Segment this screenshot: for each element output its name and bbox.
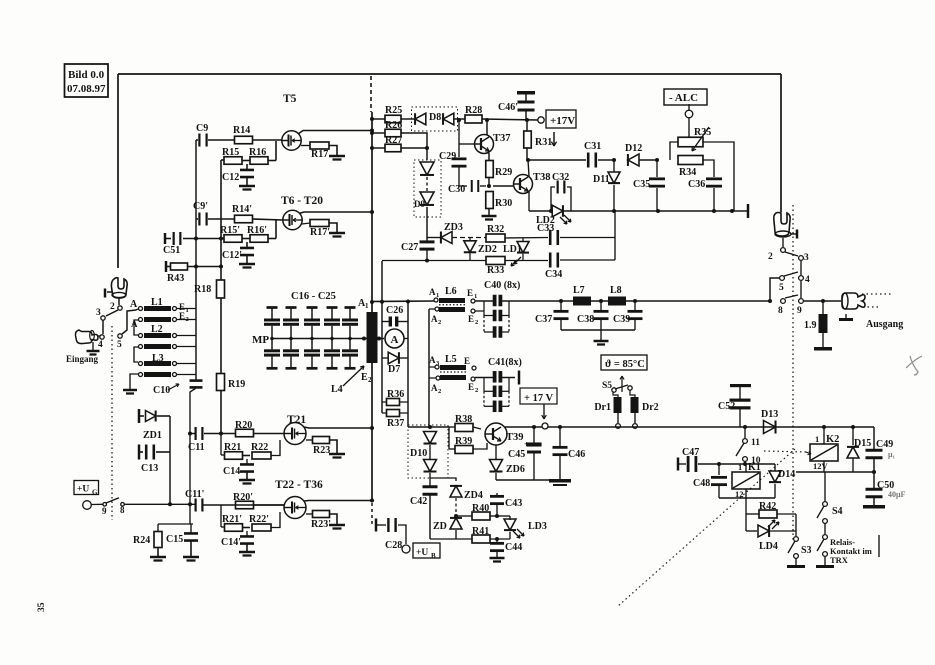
- svg-text:R17': R17': [310, 227, 330, 238]
- svg-text:R21': R21': [222, 514, 242, 525]
- svg-text:L7: L7: [573, 285, 585, 296]
- svg-text:+U: +U: [416, 548, 428, 558]
- svg-text:R19: R19: [228, 379, 245, 390]
- svg-text:C41(8x): C41(8x): [488, 357, 522, 368]
- svg-text:1.9: 1.9: [804, 320, 817, 331]
- svg-text:LD4: LD4: [759, 541, 778, 552]
- svg-text:2: 2: [438, 319, 441, 326]
- svg-text:K1: K1: [748, 462, 761, 473]
- svg-text:C49: C49: [876, 439, 893, 450]
- svg-text:D13: D13: [761, 409, 778, 420]
- svg-text:D10: D10: [410, 448, 427, 459]
- svg-text:4: 4: [98, 340, 103, 350]
- svg-text:A: A: [431, 314, 438, 324]
- svg-text:LD1: LD1: [503, 244, 522, 255]
- svg-text:R20: R20: [235, 420, 252, 431]
- svg-text:R16': R16': [247, 225, 267, 236]
- svg-text:12V: 12V: [813, 461, 829, 471]
- svg-text:A: A: [130, 299, 138, 310]
- svg-text:A: A: [429, 287, 436, 297]
- svg-text:Bild 0.0: Bild 0.0: [68, 69, 105, 81]
- svg-text:S5: S5: [602, 381, 612, 391]
- svg-text:C40 (8x): C40 (8x): [484, 280, 520, 291]
- svg-text:R42: R42: [759, 501, 776, 512]
- svg-text:C35: C35: [633, 179, 650, 190]
- svg-text:C28: C28: [385, 540, 402, 551]
- svg-text:+: +: [524, 440, 529, 449]
- svg-text:C16 - C25: C16 - C25: [291, 291, 336, 302]
- svg-text:ZD: ZD: [433, 521, 447, 532]
- svg-text:D15: D15: [854, 438, 871, 449]
- svg-text:E: E: [468, 314, 474, 324]
- svg-text:8: 8: [120, 505, 125, 515]
- svg-text:ZD2: ZD2: [478, 244, 497, 255]
- svg-text:1: 1: [738, 462, 742, 472]
- svg-text:E: E: [467, 288, 473, 298]
- svg-text:T38: T38: [533, 172, 551, 183]
- svg-text:C43: C43: [505, 498, 522, 509]
- svg-text:A: A: [431, 383, 438, 393]
- svg-text:L5: L5: [445, 354, 457, 365]
- svg-text:R32: R32: [487, 224, 504, 235]
- svg-text:R26: R26: [385, 120, 402, 131]
- svg-text:8: 8: [778, 306, 783, 316]
- svg-text:- ALC: - ALC: [669, 92, 698, 104]
- svg-text:C52: C52: [718, 401, 735, 412]
- svg-text:35: 35: [37, 602, 47, 612]
- svg-text:G: G: [92, 489, 98, 497]
- svg-text:C27: C27: [401, 242, 418, 253]
- svg-text:R40: R40: [472, 503, 489, 514]
- svg-text:MP: MP: [252, 334, 269, 346]
- svg-text:LD2: LD2: [536, 215, 555, 226]
- svg-text:R28: R28: [465, 105, 482, 116]
- svg-text:C46': C46': [498, 102, 518, 113]
- svg-text:4: 4: [805, 275, 810, 285]
- svg-text:C13: C13: [141, 463, 158, 474]
- svg-text:C48: C48: [693, 478, 710, 489]
- svg-text:R15: R15: [222, 147, 239, 158]
- svg-text:R31: R31: [535, 137, 552, 148]
- svg-text:T22 - T36: T22 - T36: [275, 479, 323, 491]
- svg-text:Dr2: Dr2: [642, 402, 659, 413]
- svg-text:C12': C12': [222, 250, 242, 261]
- svg-text:R39: R39: [455, 436, 472, 447]
- svg-text:E: E: [361, 372, 368, 383]
- svg-text:R41: R41: [472, 526, 489, 537]
- svg-text:R34: R34: [679, 167, 696, 178]
- svg-text:5: 5: [117, 340, 122, 350]
- svg-text:R22': R22': [249, 514, 269, 525]
- svg-text:R15': R15': [220, 225, 240, 236]
- svg-text:C14': C14': [221, 537, 241, 548]
- svg-text:1: 1: [815, 434, 819, 444]
- svg-text:L8: L8: [610, 285, 622, 296]
- svg-text:+17V: +17V: [550, 115, 575, 127]
- svg-text:R27: R27: [385, 135, 402, 146]
- svg-text:C42: C42: [410, 496, 427, 507]
- svg-text:C47: C47: [682, 447, 699, 458]
- svg-text:Ausgang: Ausgang: [866, 319, 903, 330]
- svg-text:R43: R43: [167, 273, 184, 284]
- svg-text:R25: R25: [385, 105, 402, 116]
- svg-text:+U: +U: [77, 485, 89, 495]
- svg-text:L4: L4: [331, 384, 343, 395]
- svg-text:2: 2: [768, 252, 773, 262]
- svg-text:T37: T37: [493, 133, 511, 144]
- svg-text:C12: C12: [222, 172, 239, 183]
- svg-text:μ₁: μ₁: [888, 450, 896, 459]
- svg-text:3: 3: [96, 308, 101, 318]
- svg-text:C26: C26: [386, 305, 403, 316]
- svg-text:T5: T5: [283, 93, 297, 105]
- svg-text:R17: R17: [311, 149, 328, 160]
- svg-text:R16: R16: [249, 147, 266, 158]
- svg-text:C29: C29: [439, 151, 456, 162]
- svg-text:D8: D8: [429, 112, 441, 123]
- svg-text:ZD3: ZD3: [444, 222, 463, 233]
- svg-text:C44: C44: [505, 542, 522, 553]
- svg-text:C11': C11': [185, 489, 205, 500]
- svg-text:2: 2: [475, 319, 478, 326]
- svg-text:R29: R29: [495, 167, 512, 178]
- svg-text:9: 9: [797, 306, 802, 316]
- svg-text:D9: D9: [414, 199, 425, 209]
- svg-text:C10: C10: [153, 385, 170, 396]
- svg-text:C30: C30: [448, 184, 465, 195]
- svg-text:R20': R20': [233, 492, 253, 503]
- svg-text:D12: D12: [625, 143, 642, 154]
- svg-text:D7: D7: [388, 364, 400, 375]
- svg-text:5: 5: [779, 283, 784, 293]
- svg-text:ϑ = 85°C: ϑ = 85°C: [605, 359, 645, 370]
- svg-text:R36: R36: [387, 389, 404, 400]
- svg-text:A: A: [391, 334, 399, 346]
- svg-text:TRX: TRX: [830, 555, 849, 565]
- svg-text:07.08.97: 07.08.97: [67, 83, 106, 95]
- svg-text:S3: S3: [801, 545, 812, 556]
- svg-text:R38: R38: [455, 414, 472, 425]
- svg-text:40μF: 40μF: [888, 490, 906, 499]
- svg-text:D11: D11: [593, 174, 610, 185]
- svg-text:C32: C32: [552, 172, 569, 183]
- svg-text:E: E: [464, 356, 470, 366]
- svg-text:A: A: [429, 355, 436, 365]
- svg-text:C36: C36: [688, 179, 705, 190]
- svg-text:R24: R24: [133, 535, 150, 546]
- svg-text:B: B: [431, 552, 436, 560]
- svg-text:R37: R37: [387, 418, 404, 429]
- svg-text:C39: C39: [613, 314, 630, 325]
- svg-text:C15: C15: [166, 534, 183, 545]
- svg-text:3: 3: [804, 253, 809, 263]
- svg-text:R14': R14': [232, 204, 252, 215]
- svg-text:C11: C11: [188, 442, 205, 453]
- svg-text:2: 2: [110, 302, 115, 312]
- svg-text:C37: C37: [535, 314, 552, 325]
- svg-text:ZD1: ZD1: [143, 430, 162, 441]
- svg-text:C38: C38: [577, 314, 594, 325]
- svg-text:ZD4: ZD4: [464, 490, 483, 501]
- svg-text:C34: C34: [545, 269, 562, 280]
- svg-text:1: 1: [365, 302, 369, 310]
- svg-text:ZD6: ZD6: [506, 464, 525, 475]
- svg-text:T39: T39: [506, 432, 524, 443]
- svg-text:R21: R21: [224, 442, 241, 453]
- svg-text:E: E: [468, 382, 474, 392]
- svg-text:R22: R22: [251, 442, 268, 453]
- svg-text:C46: C46: [568, 449, 585, 460]
- svg-text:Dr1: Dr1: [594, 402, 611, 413]
- svg-text:R23: R23: [313, 445, 330, 456]
- svg-text:2: 2: [475, 387, 478, 394]
- svg-text:+ 17 V: + 17 V: [524, 393, 554, 404]
- svg-text:S4: S4: [832, 506, 843, 517]
- svg-text:2: 2: [438, 388, 441, 395]
- svg-text:R23': R23': [311, 519, 331, 530]
- svg-text:R30: R30: [495, 198, 512, 209]
- svg-text:C51: C51: [163, 245, 180, 256]
- svg-text:C14: C14: [223, 466, 240, 477]
- svg-text:C9: C9: [196, 123, 208, 134]
- svg-text:C45: C45: [508, 449, 525, 460]
- svg-text:R14: R14: [233, 125, 250, 136]
- svg-text:C31: C31: [584, 141, 601, 152]
- svg-text:T6 - T20: T6 - T20: [281, 195, 323, 207]
- svg-text:9: 9: [102, 506, 107, 516]
- svg-text:LD3: LD3: [528, 521, 547, 532]
- svg-text:L6: L6: [445, 286, 457, 297]
- svg-text:R33: R33: [487, 265, 504, 276]
- svg-text:11: 11: [751, 438, 760, 448]
